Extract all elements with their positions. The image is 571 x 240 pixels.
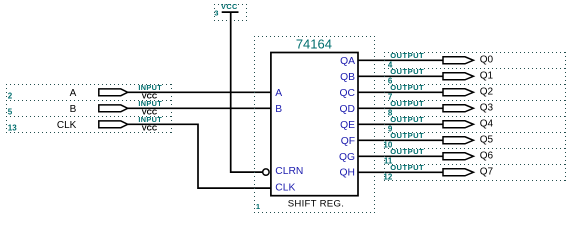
- output pin Q6 (id 11): [384, 147, 566, 165]
- wire QE: [358, 123, 443, 125]
- svg-text:1: 1: [256, 202, 261, 211]
- svg-text:QF: QF: [341, 136, 355, 147]
- svg-text:CLK: CLK: [275, 183, 295, 194]
- svg-text:CLK: CLK: [57, 120, 77, 131]
- svg-text:OUTPUT: OUTPUT: [390, 99, 424, 108]
- svg-text:A: A: [70, 88, 77, 99]
- wire QF: [358, 139, 443, 141]
- svg-text:OUTPUT: OUTPUT: [390, 131, 424, 140]
- pin CLRN bubble: [263, 169, 269, 175]
- input pin A (id 2): [6, 83, 172, 101]
- chip U1 74164 (SHIFT REG.): [254, 36, 375, 213]
- wire B: [128, 107, 271, 109]
- wire QH: [358, 171, 443, 173]
- output pin Q2 (id 7): [384, 83, 566, 101]
- svg-text:OUTPUT: OUTPUT: [390, 67, 424, 76]
- output pin Q0 (id 4): [384, 51, 566, 69]
- svg-text:CLRN: CLRN: [275, 166, 303, 177]
- svg-text:Q3: Q3: [480, 102, 494, 113]
- svg-text:2: 2: [8, 91, 13, 100]
- output pin Q7 (id 12): [383, 163, 566, 181]
- svg-text:VCC: VCC: [221, 2, 238, 11]
- svg-text:OUTPUT: OUTPUT: [390, 51, 424, 60]
- svg-text:QH: QH: [340, 168, 355, 179]
- output pin Q5 (id 10): [383, 131, 566, 149]
- input pin B (id 5): [6, 99, 172, 117]
- svg-text:Q5: Q5: [480, 134, 494, 145]
- wire QC: [358, 91, 443, 93]
- svg-text:13: 13: [8, 123, 17, 132]
- svg-text:QA: QA: [340, 56, 355, 67]
- output pin Q1 (id 6): [384, 67, 566, 85]
- output pin Q4 (id 9): [384, 115, 566, 133]
- svg-text:Q2: Q2: [480, 86, 494, 97]
- svg-text:B: B: [70, 104, 77, 115]
- svg-text:QB: QB: [340, 72, 355, 83]
- power VCC symbol (id 3): [214, 2, 247, 21]
- svg-text:Q6: Q6: [480, 150, 494, 161]
- svg-text:OUTPUT: OUTPUT: [390, 147, 424, 156]
- svg-text:Q0: Q0: [480, 54, 494, 65]
- wire QG: [358, 155, 443, 157]
- svg-text:OUTPUT: OUTPUT: [390, 163, 424, 172]
- svg-text:3: 3: [214, 8, 218, 17]
- svg-text:QD: QD: [340, 104, 355, 115]
- wire VCC net to CLRN bubble: [231, 12, 263, 172]
- wire QA: [358, 59, 443, 61]
- svg-text:12: 12: [383, 172, 392, 181]
- output pin Q3 (id 8): [384, 99, 566, 117]
- svg-text:Q1: Q1: [480, 70, 494, 81]
- input pin CLK (id 13): [6, 115, 172, 133]
- svg-text:5: 5: [8, 107, 13, 116]
- svg-text:SHIFT REG.: SHIFT REG.: [288, 199, 344, 210]
- svg-text:QC: QC: [340, 88, 356, 99]
- wire QB: [358, 75, 443, 77]
- svg-text:74164: 74164: [296, 37, 332, 52]
- svg-text:OUTPUT: OUTPUT: [390, 115, 424, 124]
- wire QD: [358, 107, 443, 109]
- svg-text:QG: QG: [339, 152, 355, 163]
- svg-text:QE: QE: [340, 120, 355, 131]
- wire CLK: [128, 124, 271, 188]
- svg-text:OUTPUT: OUTPUT: [390, 83, 424, 92]
- svg-text:Q4: Q4: [480, 118, 494, 129]
- svg-text:A: A: [275, 88, 282, 99]
- svg-text:B: B: [275, 104, 282, 115]
- svg-text:Q7: Q7: [480, 166, 494, 177]
- wire A: [128, 91, 271, 93]
